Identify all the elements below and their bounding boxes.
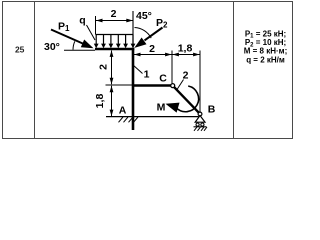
- support B triangle: [195, 116, 205, 123]
- 30 degree arc: [73, 41, 75, 50]
- support B ground line: [194, 126, 207, 128]
- support A hatching: [119, 117, 139, 122]
- force P2: [145, 28, 163, 41]
- distributed load arrows: [96, 35, 133, 45]
- member 1 leader line: [133, 65, 143, 74]
- force P1: [51, 30, 85, 45]
- svg-text:2: 2: [98, 64, 110, 70]
- moment M arc: [176, 86, 199, 112]
- svg-text:45°: 45°: [136, 10, 152, 22]
- svg-text:q: q: [79, 15, 85, 27]
- beam (top horizontal member): [95, 48, 134, 51]
- support B rollers: [196, 123, 199, 126]
- column top extension line: [132, 11, 134, 47]
- column (member 1, vertical): [132, 48, 135, 130]
- 45 degree arc: [135, 28, 152, 39]
- svg-text:B: B: [208, 104, 216, 116]
- horizontal member to hinge C: [133, 84, 171, 86]
- member 2 leader line: [177, 80, 184, 90]
- svg-text:q = 2 кН/м: q = 2 кН/м: [246, 55, 285, 64]
- moment M arrowhead: [166, 103, 180, 113]
- left vertical dimension line: [106, 51, 133, 117]
- 30 degree datum line: [64, 49, 95, 51]
- svg-text:30°: 30°: [44, 41, 60, 53]
- svg-text:1,8: 1,8: [94, 94, 106, 109]
- svg-text:C: C: [159, 73, 167, 85]
- svg-text:A: A: [119, 105, 127, 117]
- support B pin: [198, 112, 202, 116]
- ground baseline A to B: [106, 116, 199, 118]
- svg-text:2: 2: [149, 43, 155, 55]
- top dimension line "2": [96, 16, 134, 35]
- right dimension line 2 / 1,8: [133, 51, 200, 113]
- svg-text:2: 2: [111, 8, 117, 20]
- svg-text:1,8: 1,8: [178, 43, 193, 55]
- member 2 (slanted C to B): [174, 87, 199, 113]
- support B hatching: [194, 127, 207, 131]
- svg-text:1: 1: [144, 69, 150, 81]
- distributed load q: bar: [96, 34, 134, 36]
- svg-text:M = 8 кН·м;: M = 8 кН·м;: [244, 47, 287, 56]
- svg-text:M: M: [157, 102, 166, 114]
- svg-text:25: 25: [15, 45, 25, 55]
- svg-text:2: 2: [183, 70, 189, 82]
- hinge C circle: [171, 84, 175, 88]
- q leader line: [87, 25, 96, 40]
